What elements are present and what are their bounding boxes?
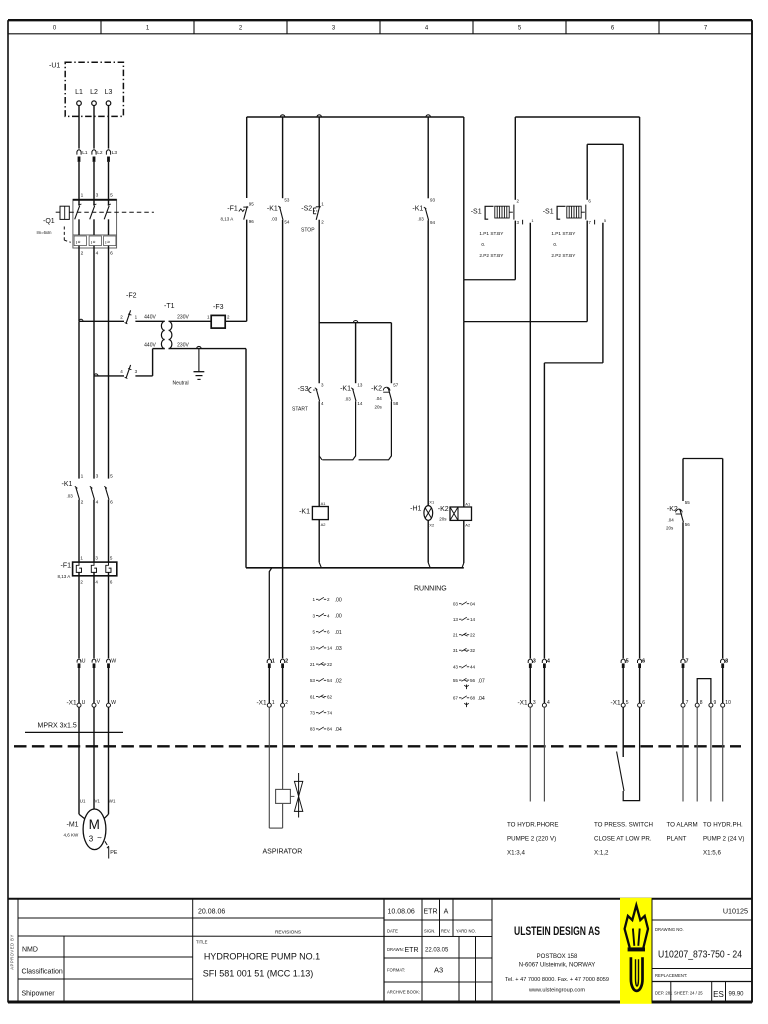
svg-text:TO PRESS. SWITCH: TO PRESS. SWITCH: [594, 822, 653, 829]
svg-text:.03: .03: [271, 217, 278, 222]
svg-text:5: 5: [312, 630, 315, 635]
svg-text:61: 61: [310, 694, 316, 699]
svg-text:-X1: -X1: [257, 700, 268, 707]
svg-text:L1: L1: [82, 150, 88, 156]
svg-text:Im=6xIn: Im=6xIn: [37, 230, 53, 235]
svg-text:44: 44: [470, 665, 476, 670]
svg-text:0.: 0.: [553, 242, 557, 247]
svg-text:X1: X1: [429, 500, 435, 505]
svg-text:STOP: STOP: [301, 228, 315, 234]
svg-text:.03: .03: [418, 217, 425, 222]
svg-text:SIGN.: SIGN.: [424, 929, 435, 934]
svg-text:3: 3: [533, 700, 536, 706]
svg-text:32: 32: [470, 648, 476, 653]
svg-text:4: 4: [547, 700, 550, 706]
svg-text:13: 13: [310, 646, 316, 651]
svg-text:ETR: ETR: [424, 909, 438, 916]
svg-text:96: 96: [249, 219, 255, 224]
svg-text:2: 2: [285, 659, 288, 665]
svg-text:2: 2: [81, 251, 84, 257]
svg-text:V1: V1: [95, 799, 101, 804]
svg-text:»: »: [78, 240, 81, 246]
svg-text:230V: 230V: [177, 315, 189, 321]
svg-text:4: 4: [547, 659, 550, 665]
svg-text:.02: .02: [335, 679, 342, 685]
svg-text:FORMAT:: FORMAT:: [387, 968, 405, 973]
svg-text:10.08.06: 10.08.06: [388, 909, 415, 916]
svg-text:-F1: -F1: [227, 206, 238, 213]
svg-text:POSTBOX 158: POSTBOX 158: [537, 954, 578, 960]
svg-text:Classification: Classification: [22, 969, 63, 976]
svg-text:-K2: -K2: [667, 506, 678, 513]
svg-text:13: 13: [357, 382, 363, 387]
svg-text:A: A: [444, 909, 449, 916]
svg-text:ASPIRATOR: ASPIRATOR: [263, 849, 303, 856]
svg-text:TITLE: TITLE: [196, 940, 208, 945]
svg-text:DRAWING NO.: DRAWING NO.: [655, 927, 684, 932]
svg-text:ULSTEIN DESIGN AS: ULSTEIN DESIGN AS: [514, 926, 600, 938]
svg-text:.04: .04: [668, 518, 675, 523]
svg-text:53: 53: [284, 197, 290, 202]
svg-text:.04: .04: [478, 696, 485, 702]
svg-text:»: »: [107, 240, 110, 246]
svg-text:4,6 KW: 4,6 KW: [64, 833, 80, 838]
svg-text:U10207_873-750 - 24: U10207_873-750 - 24: [658, 950, 742, 961]
svg-text:2.P2 ST.BY: 2.P2 ST.BY: [479, 253, 504, 258]
svg-text:TO ALARM: TO ALARM: [667, 822, 698, 829]
svg-text:1: 1: [312, 597, 315, 602]
svg-text:.00: .00: [335, 614, 342, 620]
svg-text:-K1: -K1: [412, 206, 423, 213]
svg-text:14: 14: [357, 401, 363, 406]
svg-text:-K1: -K1: [299, 509, 310, 516]
svg-text:TO HYDR.PHORE: TO HYDR.PHORE: [507, 822, 558, 829]
svg-text:L1: L1: [75, 89, 83, 96]
svg-text:Tel. + 47 7000 8000. Fax. + 4: Tel. + 47 7000 8000. Fax. + 47 7000 8059: [505, 977, 609, 983]
svg-text:-K2: -K2: [438, 506, 449, 513]
svg-text:5: 5: [110, 193, 113, 199]
svg-text:-K2: -K2: [371, 386, 382, 393]
svg-text:DRAWN:: DRAWN:: [387, 947, 404, 952]
svg-text:V: V: [97, 659, 101, 665]
svg-text:»: »: [93, 240, 96, 246]
svg-text:1: 1: [272, 659, 275, 665]
svg-text:-S2: -S2: [301, 206, 312, 213]
svg-text:3: 3: [312, 613, 315, 618]
svg-text:PLANT: PLANT: [667, 836, 687, 843]
svg-text:L3: L3: [112, 150, 118, 156]
svg-text:8: 8: [725, 659, 728, 665]
svg-text:56: 56: [470, 678, 476, 683]
svg-text:A1: A1: [465, 502, 471, 507]
svg-text:1: 1: [81, 193, 84, 199]
svg-text:.03: .03: [67, 494, 74, 499]
svg-text:22.03.05: 22.03.05: [425, 948, 449, 954]
svg-text:-X1: -X1: [67, 700, 78, 707]
svg-text:7: 7: [686, 700, 689, 706]
svg-text:68: 68: [470, 696, 476, 701]
svg-text:20s: 20s: [375, 405, 383, 410]
svg-text:-F2: -F2: [126, 293, 137, 300]
svg-text:8,13 A: 8,13 A: [221, 217, 234, 222]
svg-text:V: V: [97, 700, 101, 706]
svg-text:21: 21: [453, 633, 459, 638]
svg-text:1: 1: [272, 700, 275, 706]
svg-text:SFI 581 001 51 (MCC 1.13): SFI 581 001 51 (MCC 1.13): [203, 969, 314, 979]
svg-text:HYDROPHORE PUMP NO.1: HYDROPHORE PUMP NO.1: [204, 952, 320, 962]
svg-text:.03: .03: [345, 397, 352, 402]
svg-text:X1:3,4: X1:3,4: [507, 850, 525, 857]
svg-text:U1: U1: [80, 799, 86, 804]
svg-text:SHEET: 24 / 25: SHEET: 24 / 25: [674, 991, 703, 996]
svg-text:U10125: U10125: [723, 907, 748, 916]
svg-text:20s: 20s: [439, 516, 447, 521]
svg-text:-K1: -K1: [340, 386, 351, 393]
svg-text:W: W: [111, 659, 116, 665]
svg-text:A2: A2: [465, 523, 471, 528]
svg-text:.03: .03: [335, 646, 342, 652]
svg-text:ETR: ETR: [405, 947, 419, 954]
svg-text:-S1: -S1: [543, 209, 554, 216]
svg-text:-S1: -S1: [471, 209, 482, 216]
svg-text:13: 13: [453, 617, 459, 622]
svg-text:W: W: [111, 700, 116, 706]
svg-text:A2: A2: [321, 522, 327, 527]
svg-text:ARCHIVE BOOK:: ARCHIVE BOOK:: [387, 990, 420, 995]
svg-text:57: 57: [393, 382, 399, 387]
svg-text:8: 8: [700, 700, 703, 706]
svg-text:74: 74: [327, 711, 333, 716]
svg-text:31: 31: [453, 648, 459, 653]
svg-text:1: 1: [81, 474, 84, 480]
svg-text:58: 58: [393, 401, 399, 406]
svg-text:55: 55: [685, 500, 691, 505]
svg-text:A1: A1: [321, 501, 327, 506]
svg-text:21: 21: [310, 662, 316, 667]
svg-text:U: U: [82, 700, 86, 706]
svg-text:3: 3: [96, 193, 99, 199]
svg-text:-M1: -M1: [67, 822, 79, 829]
svg-text:RUNNING: RUNNING: [414, 586, 447, 593]
svg-text:-K1: -K1: [267, 206, 278, 213]
svg-text:3: 3: [533, 659, 536, 665]
svg-text:.04: .04: [376, 396, 383, 401]
svg-text:03: 03: [453, 602, 459, 607]
svg-text:W1: W1: [109, 799, 116, 804]
svg-text:M: M: [89, 817, 100, 832]
svg-text:X:1,2: X:1,2: [594, 850, 609, 857]
svg-text:.00: .00: [335, 598, 342, 604]
svg-text:DEP. 281: DEP. 281: [655, 991, 673, 996]
svg-text:REPLACEMENT:: REPLACEMENT:: [655, 973, 687, 978]
svg-text:67: 67: [453, 696, 459, 701]
svg-text:56: 56: [685, 522, 691, 527]
svg-text:0.: 0.: [481, 242, 485, 247]
svg-text:6: 6: [110, 500, 113, 506]
svg-text:-Q1: -Q1: [43, 218, 55, 225]
svg-text:L2: L2: [97, 150, 103, 156]
svg-text:-K1: -K1: [62, 481, 73, 488]
svg-text:14: 14: [327, 646, 333, 651]
svg-text:8,13 A: 8,13 A: [58, 574, 71, 579]
svg-text:3: 3: [89, 835, 94, 844]
svg-text:X1:5,6: X1:5,6: [703, 850, 721, 857]
svg-text:www.ulsteingroup.com: www.ulsteingroup.com: [528, 988, 585, 994]
svg-text:START: START: [292, 407, 308, 413]
svg-text:DATE: DATE: [387, 929, 398, 934]
svg-text:.07: .07: [478, 678, 485, 684]
svg-text:99.90: 99.90: [729, 992, 745, 998]
svg-text:22: 22: [470, 633, 476, 638]
svg-text:54: 54: [327, 678, 333, 683]
svg-text:TO HYDR.PH.: TO HYDR.PH.: [703, 822, 743, 829]
svg-text:-H1: -H1: [410, 506, 421, 513]
svg-text:6: 6: [327, 630, 330, 635]
svg-text:-X1: -X1: [611, 700, 622, 707]
svg-text:CLOSE AT LOW PR.: CLOSE AT LOW PR.: [594, 836, 652, 843]
svg-text:U: U: [82, 659, 86, 665]
svg-text:4: 4: [96, 251, 99, 257]
svg-text:440V: 440V: [144, 315, 156, 321]
svg-text:N-6067 Ulsteinvik, NORWAY: N-6067 Ulsteinvik, NORWAY: [519, 963, 596, 969]
svg-text:PUMPE 2 (220 V): PUMPE 2 (220 V): [507, 836, 556, 843]
svg-text:APPROVED BY: APPROVED BY: [10, 934, 15, 970]
svg-text:440V: 440V: [144, 343, 156, 349]
svg-text:55: 55: [453, 678, 459, 683]
svg-text:6: 6: [642, 700, 645, 706]
svg-text:-S3: -S3: [298, 386, 309, 393]
svg-text:MPRX 3x1.5: MPRX 3x1.5: [38, 723, 77, 730]
svg-text:14: 14: [470, 617, 476, 622]
svg-text:20s: 20s: [666, 526, 674, 531]
svg-text:43: 43: [453, 665, 459, 670]
svg-text:2: 2: [327, 597, 330, 602]
svg-text:84: 84: [327, 727, 333, 732]
svg-text:2.P2 ST.BY: 2.P2 ST.BY: [551, 253, 576, 258]
svg-text:94: 94: [430, 220, 436, 225]
svg-text:Shipowner: Shipowner: [22, 991, 56, 998]
svg-text:PUMP 2 (24 V): PUMP 2 (24 V): [703, 836, 745, 843]
svg-text:4: 4: [327, 613, 330, 618]
svg-text:Neutral: Neutral: [173, 381, 189, 387]
svg-text:L3: L3: [105, 89, 113, 96]
svg-text:10: 10: [725, 700, 731, 706]
svg-text:7: 7: [686, 659, 689, 665]
svg-text:95: 95: [249, 202, 255, 207]
svg-text:5: 5: [626, 659, 629, 665]
svg-text:.04: .04: [335, 727, 342, 733]
svg-text:NMD: NMD: [22, 947, 38, 954]
svg-text:-U1: -U1: [49, 63, 60, 70]
svg-text:62: 62: [327, 694, 333, 699]
svg-text:A3: A3: [434, 966, 443, 975]
svg-text:-X1: -X1: [518, 700, 529, 707]
svg-text:53: 53: [310, 678, 316, 683]
svg-text:-T1: -T1: [164, 303, 175, 310]
svg-text:~: ~: [97, 834, 102, 843]
svg-text:6: 6: [642, 659, 645, 665]
svg-text:YARD NO.: YARD NO.: [456, 929, 476, 934]
svg-text:-F3: -F3: [213, 304, 224, 311]
svg-text:REV.: REV.: [441, 929, 450, 934]
svg-text:1.P1 ST.BY: 1.P1 ST.BY: [479, 231, 504, 236]
svg-text:2: 2: [81, 500, 84, 506]
svg-text:2: 2: [285, 700, 288, 706]
svg-text:04: 04: [470, 602, 476, 607]
svg-text:54: 54: [284, 220, 290, 225]
svg-text:L2: L2: [90, 89, 98, 96]
svg-text:230V: 230V: [177, 343, 189, 349]
svg-text:93: 93: [430, 198, 436, 203]
svg-text:6: 6: [110, 251, 113, 257]
svg-text:73: 73: [310, 711, 316, 716]
svg-text:.01: .01: [335, 630, 342, 636]
svg-text:ES: ES: [713, 990, 724, 999]
svg-text:-F1: -F1: [61, 563, 72, 570]
svg-text:REVISIONS: REVISIONS: [275, 930, 301, 936]
svg-text:9: 9: [714, 700, 717, 706]
svg-text:X2: X2: [429, 523, 435, 528]
svg-text:1.P1 ST.BY: 1.P1 ST.BY: [551, 231, 576, 236]
svg-text:83: 83: [310, 727, 316, 732]
svg-text:20.08.06: 20.08.06: [198, 909, 225, 916]
svg-text:PE: PE: [110, 850, 118, 856]
svg-text:5: 5: [626, 700, 629, 706]
svg-text:22: 22: [327, 662, 333, 667]
svg-text:5: 5: [110, 474, 113, 480]
svg-text:3: 3: [96, 474, 99, 480]
svg-text:4: 4: [96, 500, 99, 506]
